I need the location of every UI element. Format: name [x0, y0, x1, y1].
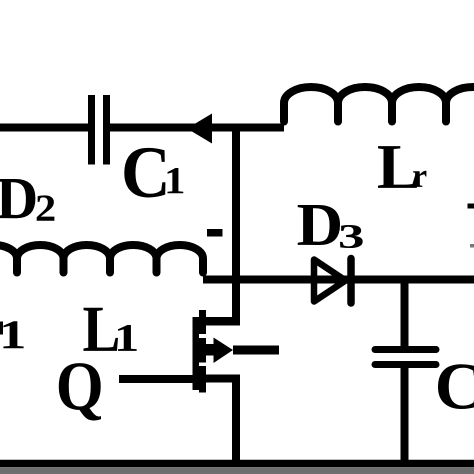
body stub	[205, 344, 214, 356]
capacitor C (output)	[375, 350, 436, 365]
wire (source down to rail)	[232, 378, 240, 464]
bottom rail wire	[0, 460, 474, 468]
wire (node from arrow down to MOSFET drain)	[232, 124, 240, 326]
label fragment (cut letter at right edge, bottom)	[470, 244, 474, 248]
drain jog	[204, 317, 240, 326]
label D2	[0, 179, 54, 221]
gate bar	[193, 317, 200, 390]
wire	[110, 124, 284, 132]
label Q	[59, 363, 101, 420]
inductor Lr	[284, 87, 474, 122]
source jog	[204, 375, 240, 383]
label fragment (cut letter at right edge, top)	[468, 204, 474, 209]
label Lr	[378, 146, 426, 188]
label C1	[124, 148, 183, 198]
label D3	[298, 205, 363, 248]
MOSFET Q	[119, 310, 279, 393]
wire (capacitor to rail)	[401, 365, 409, 464]
diode D3	[314, 259, 351, 304]
wire	[0, 124, 89, 132]
body lead	[233, 346, 279, 355]
body arrow	[214, 338, 234, 364]
label L1	[83, 308, 136, 351]
label C (cut off at edge)	[438, 364, 474, 409]
capacitor C1	[92, 95, 107, 165]
label 1 (cut-off designator at left edge)	[0, 321, 24, 348]
minus polarity mark	[207, 229, 223, 237]
gate wire	[119, 375, 196, 383]
wire (down to output capacitor)	[401, 280, 409, 348]
figure edge strip	[0, 468, 474, 474]
channel bar segments	[199, 310, 206, 334]
wire (node row: L1 to D3 to output)	[203, 276, 474, 284]
arrow (current direction into node)	[187, 114, 212, 144]
inductor L1	[0, 245, 203, 273]
